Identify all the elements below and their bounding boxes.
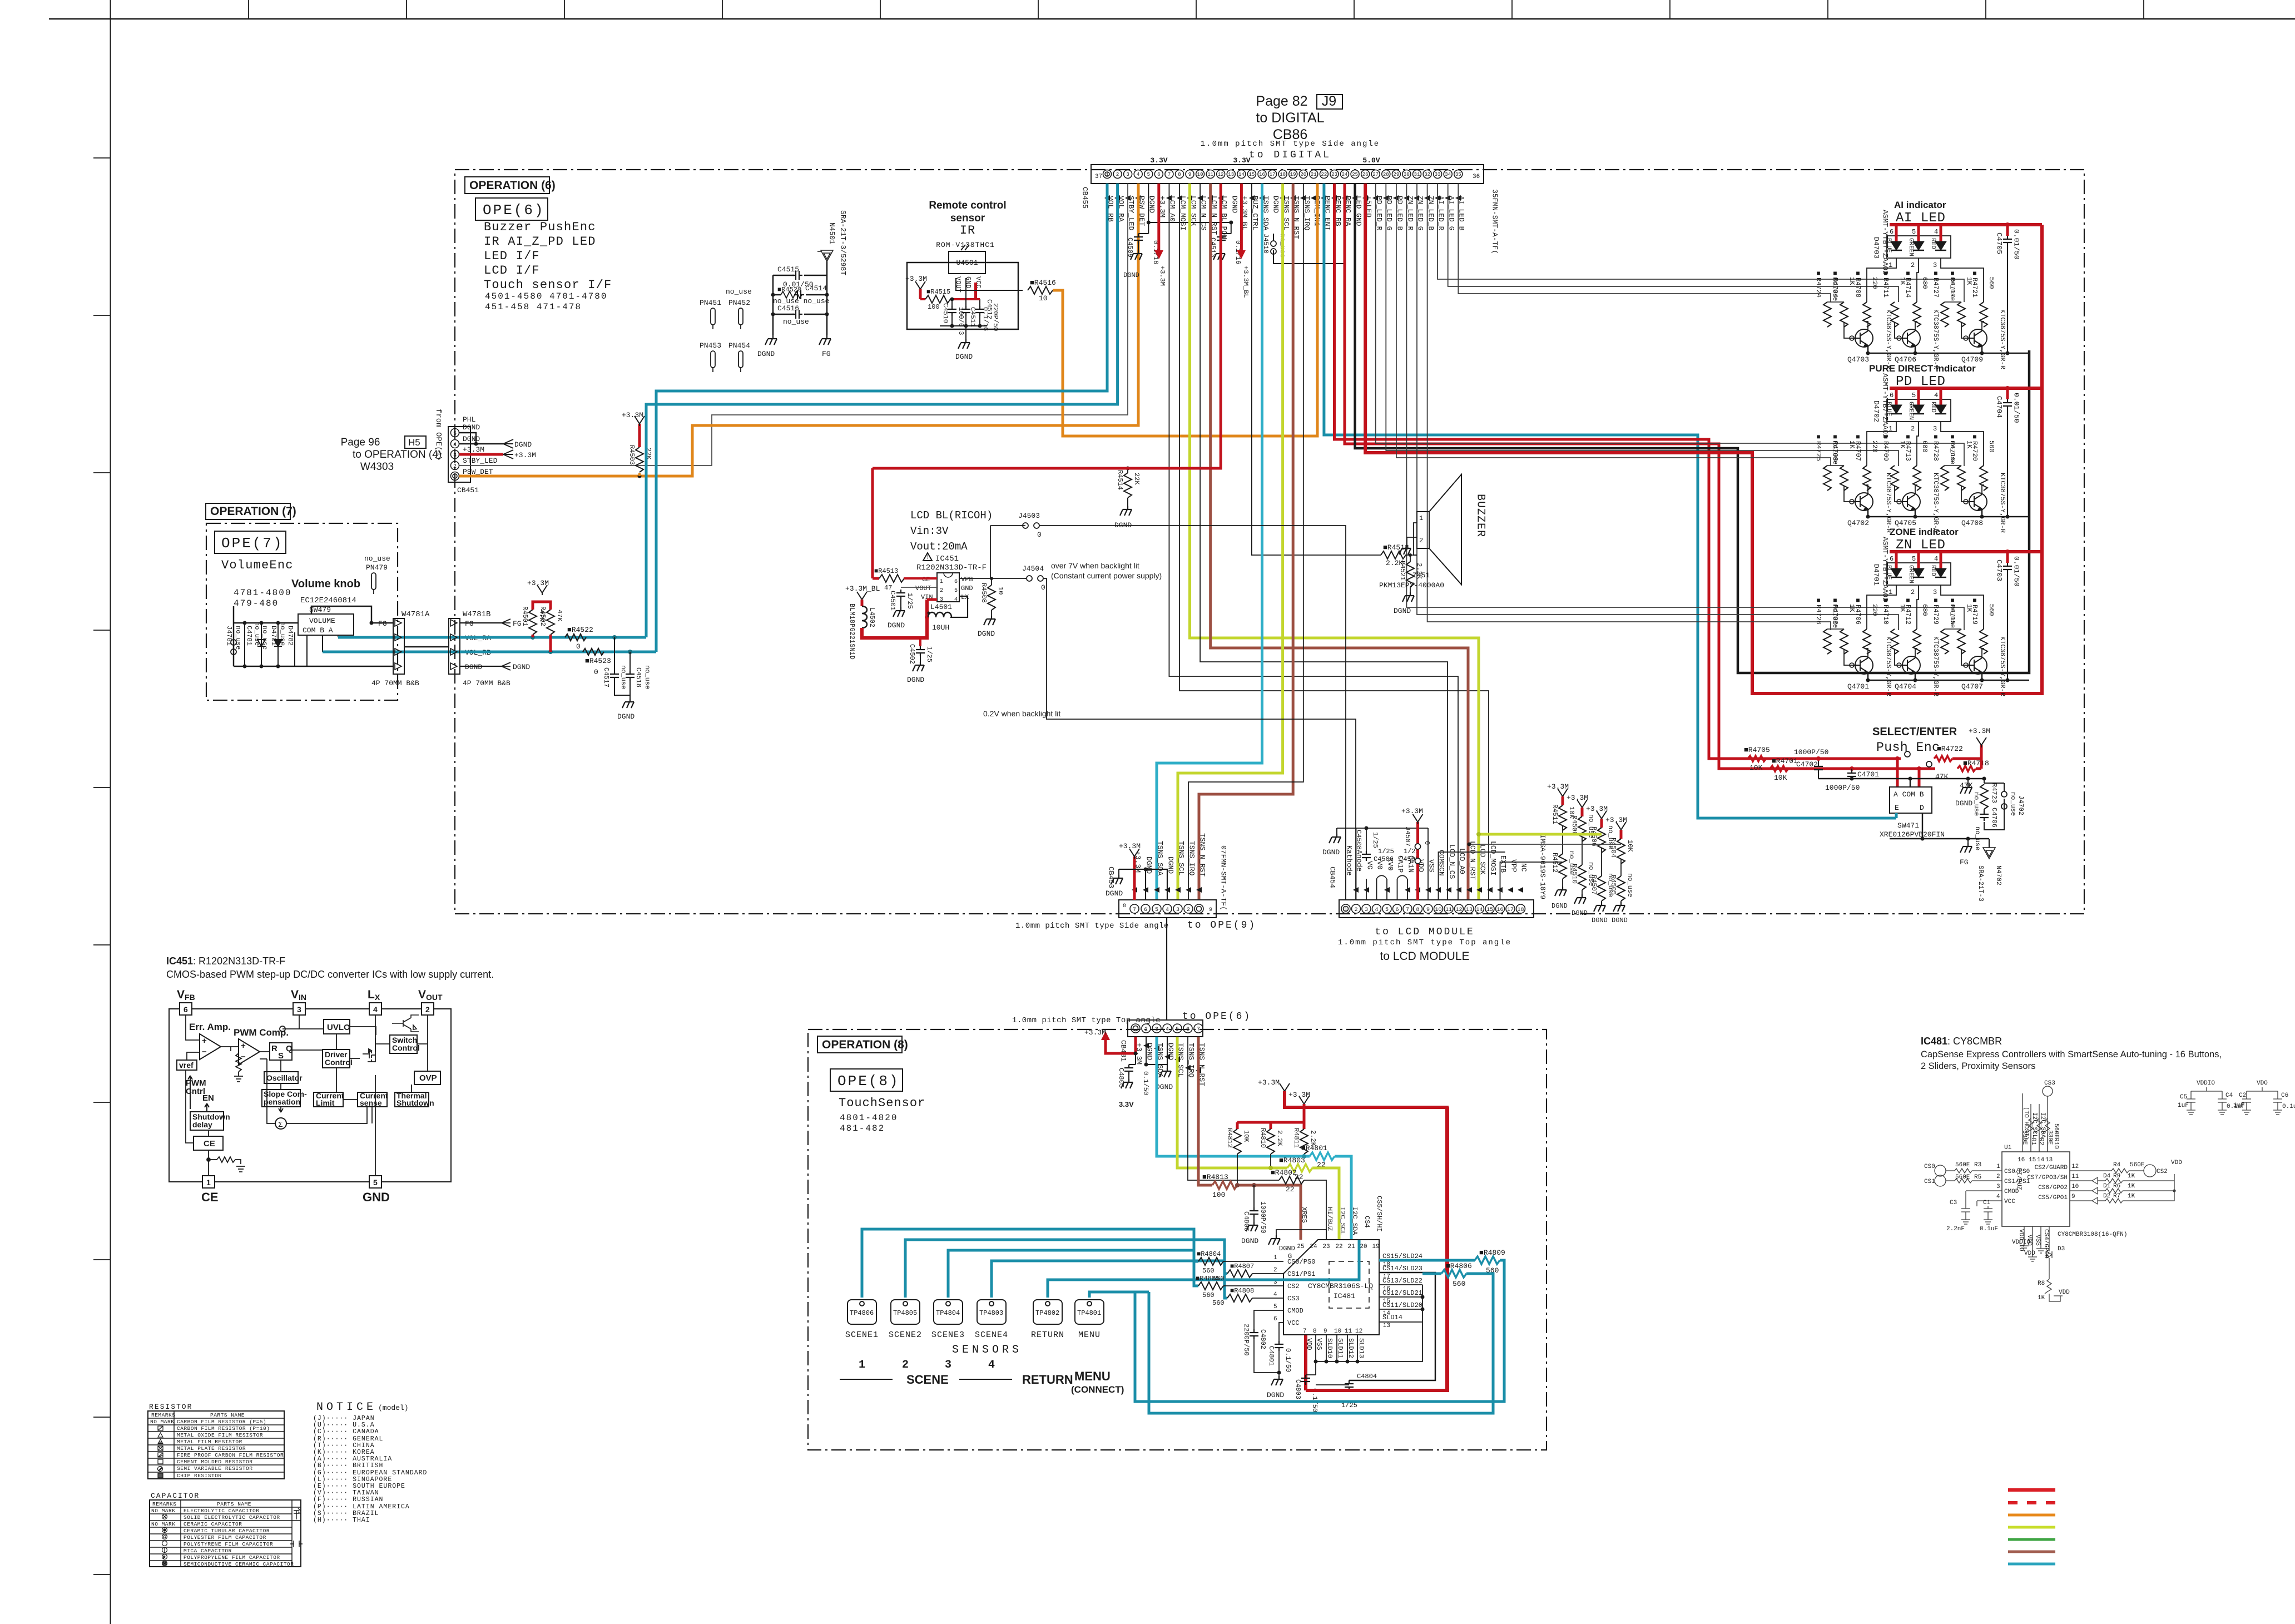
svg-text:R4507: R4507 bbox=[1590, 875, 1598, 895]
svg-text:D3: D3 bbox=[2058, 1246, 2065, 1252]
svg-text:KTC3875S-Y,GR-R: KTC3875S-Y,GR-R bbox=[1885, 636, 1892, 696]
antenna filter C4515 C4514 C4516 R4520 bbox=[773, 275, 827, 331]
svg-text:■R4719: ■R4719 bbox=[1971, 597, 1979, 625]
svg-text:L4502: L4502 bbox=[868, 607, 876, 627]
svg-text:CS5/GPO1: CS5/GPO1 bbox=[2038, 1195, 2068, 1201]
svg-text:no_use: no_use bbox=[783, 318, 809, 326]
svg-text:47K: 47K bbox=[1935, 773, 1949, 781]
OPE(6) ref numbers bbox=[485, 291, 607, 312]
svg-text:33: 33 bbox=[1435, 172, 1441, 177]
svg-text:17: 17 bbox=[1270, 172, 1276, 177]
svg-text:1: 1 bbox=[1996, 1163, 2000, 1170]
svg-text:■R4724: ■R4724 bbox=[1815, 270, 1822, 298]
svg-text:CS2: CS2 bbox=[2157, 1169, 2168, 1175]
svg-text:■R4516: ■R4516 bbox=[1030, 279, 1056, 287]
svg-text:VDDIO: VDDIO bbox=[2012, 1239, 2030, 1246]
svg-text:12: 12 bbox=[1455, 907, 1462, 913]
svg-text:Touch sensor I/F: Touch sensor I/F bbox=[484, 278, 612, 292]
svg-text:D4781: D4781 bbox=[270, 626, 277, 646]
svg-text:C4703: C4703 bbox=[1995, 560, 2004, 581]
svg-text:8: 8 bbox=[1313, 1328, 1317, 1335]
connector J9 CB455 body bbox=[1091, 165, 1484, 184]
wire +5LED rail PD LED bbox=[1890, 387, 2042, 390]
svg-text:2: 2 bbox=[1144, 1027, 1148, 1033]
svg-text:12: 12 bbox=[1355, 1328, 1362, 1335]
svg-text:NO MARK: NO MARK bbox=[151, 1521, 175, 1527]
svg-text:2 Sliders, Proximity Sensors: 2 Sliders, Proximity Sensors bbox=[1921, 1061, 2035, 1071]
svg-text:C4515: C4515 bbox=[777, 265, 799, 274]
resistor R4516 10 bbox=[1028, 286, 1053, 294]
jumper J4503 0 + kathode line bbox=[990, 525, 1025, 526]
svg-text:TP4803: TP4803 bbox=[979, 1309, 1003, 1317]
svg-text:POLYSTYRENE FILM CAPACITOR: POLYSTYRENE FILM CAPACITOR bbox=[184, 1541, 273, 1547]
svg-text:VDDIO: VDDIO bbox=[2197, 1080, 2215, 1087]
svg-text:DGND: DGND bbox=[513, 663, 530, 671]
svg-text:to OPERATION (4): to OPERATION (4) bbox=[353, 449, 442, 461]
OPE(6) function list bbox=[484, 220, 612, 292]
svg-text:6: 6 bbox=[1890, 392, 1894, 399]
svg-text:1/25: 1/25 bbox=[1371, 832, 1379, 848]
svg-text:■R4727: ■R4727 bbox=[1932, 270, 1940, 298]
svg-text:DGND: DGND bbox=[907, 676, 924, 684]
resistor R4518 2.2K bbox=[1381, 551, 1406, 559]
svg-text:no_use: no_use bbox=[726, 288, 752, 296]
capacitor C4702 1000P/50 bbox=[1818, 759, 1819, 763]
right pins bbox=[2070, 1171, 2111, 1201]
OPERATION(7) dash-dot border bbox=[206, 523, 398, 700]
wire TSNS_IRQ OPE8 bbox=[1188, 1037, 1279, 1180]
svg-text:SLD13: SLD13 bbox=[1357, 1338, 1365, 1358]
svg-text:■R4702: ■R4702 bbox=[1831, 597, 1839, 625]
svg-text:CEMENT MOLDED RESISTOR: CEMENT MOLDED RESISTOR bbox=[177, 1459, 252, 1465]
svg-text:DGND: DGND bbox=[1241, 1237, 1258, 1245]
CB454 DGND rail bbox=[1337, 828, 1428, 900]
svg-text:FG: FG bbox=[822, 350, 831, 358]
svg-text:560E: 560E bbox=[1955, 1174, 1970, 1181]
svg-text:1K: 1K bbox=[2128, 1193, 2135, 1200]
Oscillator box bbox=[264, 1072, 298, 1083]
svg-text:I2C_SDA: I2C_SDA bbox=[1351, 1207, 1359, 1235]
R4723 C4706 J4702 no_use cluster bbox=[1984, 779, 2004, 830]
svg-text:15: 15 bbox=[1383, 1298, 1390, 1305]
svg-text:■R4806: ■R4806 bbox=[1446, 1262, 1472, 1270]
encoder SW471 XRE0126PVB20FIN bbox=[1890, 787, 1932, 813]
svg-text:R1: R1 bbox=[2030, 1138, 2036, 1146]
svg-text:C6: C6 bbox=[2281, 1092, 2288, 1099]
svg-text:IC451: R1202N313D-TR-F: IC451: R1202N313D-TR-F bbox=[166, 955, 285, 967]
IC481 chip body bbox=[1283, 1240, 1379, 1335]
svg-text:6: 6 bbox=[1157, 172, 1160, 177]
svg-text:18: 18 bbox=[1280, 172, 1286, 177]
wire LCM_A0 bbox=[1169, 184, 1458, 900]
svg-text:POLYPROPYLENE FILM CAPACITOR: POLYPROPYLENE FILM CAPACITOR bbox=[184, 1554, 280, 1561]
svg-text:25: 25 bbox=[1297, 1244, 1304, 1250]
svg-text:RED: RED bbox=[1930, 238, 1936, 249]
svg-text:680: 680 bbox=[1921, 604, 1929, 616]
svg-text:R4510: R4510 bbox=[1570, 864, 1578, 884]
svg-text:NC: NC bbox=[1520, 863, 1528, 872]
wire VOL_RA right of W4781B bbox=[460, 636, 646, 639]
wire LED_GND black bbox=[1355, 184, 2029, 673]
svg-text:CS6/GPO2: CS6/GPO2 bbox=[2038, 1185, 2068, 1191]
resistor R4703 1K bbox=[1840, 466, 1848, 491]
svg-text:Q4705: Q4705 bbox=[1895, 519, 1916, 527]
svg-text:■R4802: ■R4802 bbox=[1271, 1169, 1297, 1177]
wire BUZ_CTRL bbox=[1252, 184, 1381, 555]
svg-text:22: 22 bbox=[1335, 1244, 1342, 1250]
svg-text:4801-4820: 4801-4820 bbox=[840, 1113, 898, 1123]
svg-text:19: 19 bbox=[1290, 172, 1296, 177]
capacitor C4502 1/25 bbox=[919, 638, 921, 646]
svg-text:35: 35 bbox=[1455, 172, 1461, 177]
wire DGND pin5 + C4509 bbox=[1148, 184, 1231, 234]
svg-text:R4810: R4810 bbox=[1259, 1128, 1267, 1148]
svg-text:−: − bbox=[202, 1047, 207, 1057]
svg-text:2: 2 bbox=[1419, 537, 1423, 544]
svg-text:560: 560 bbox=[1202, 1267, 1215, 1275]
touch pads bbox=[847, 1300, 876, 1324]
svg-text:TSNS_IRQ: TSNS_IRQ bbox=[1303, 196, 1311, 231]
resistor R4724 no_use bbox=[1823, 302, 1831, 327]
wire STBY_LED bbox=[459, 184, 1128, 466]
svg-text:11: 11 bbox=[2071, 1174, 2079, 1180]
svg-text:no_use: no_use bbox=[279, 622, 286, 646]
wire 0.2V line to LCD anode bbox=[1043, 578, 1356, 900]
svg-text:D4703: D4703 bbox=[1872, 237, 1881, 259]
svg-text:VSS: VSS bbox=[1315, 1338, 1323, 1350]
svg-text:MICA CAPACITOR: MICA CAPACITOR bbox=[184, 1548, 232, 1554]
connector CB481 to OPE(6) bbox=[1128, 1020, 1203, 1037]
wire PSW_DET orange bbox=[459, 184, 1138, 476]
svg-text:+3.3M: +3.3M bbox=[1158, 266, 1166, 286]
resistor R4802 22 bbox=[1279, 1176, 1304, 1184]
CB453 +3.3M red bbox=[1133, 856, 1136, 900]
svg-text:DGND: DGND bbox=[1612, 917, 1628, 924]
svg-text:2.2K: 2.2K bbox=[1309, 1130, 1317, 1147]
svg-text:■R4716: ■R4716 bbox=[1949, 433, 1956, 461]
svg-text:4: 4 bbox=[453, 442, 457, 448]
OPERATION(6) dash-dot border bbox=[455, 170, 2084, 914]
wire AI_LED_R bbox=[1438, 184, 1964, 302]
svg-text:TP4805: TP4805 bbox=[893, 1309, 917, 1317]
svg-text:0.1/50: 0.1/50 bbox=[1284, 1348, 1292, 1372]
resistor R4706 220 bbox=[1863, 629, 1871, 654]
svg-text:no_use: no_use bbox=[2009, 792, 2017, 816]
svg-text:0: 0 bbox=[1423, 841, 1431, 845]
svg-text:07FMN-SMT-A-TF(: 07FMN-SMT-A-TF( bbox=[1220, 845, 1228, 910]
svg-text:(CONNECT): (CONNECT) bbox=[1071, 1384, 1124, 1395]
resistor R4807 560 bbox=[1227, 1270, 1252, 1278]
svg-text:R10: R10 bbox=[2053, 1138, 2059, 1149]
svg-text:32: 32 bbox=[1424, 172, 1430, 177]
svg-text:C4509: C4509 bbox=[1126, 237, 1134, 258]
svg-text:C4704: C4704 bbox=[1995, 396, 2004, 418]
svg-text:1uF: 1uF bbox=[2233, 1102, 2244, 1109]
svg-text:R8: R8 bbox=[2038, 1280, 2045, 1287]
link line CB453 to CB481 bbox=[1166, 918, 1167, 1020]
svg-text:1/25: 1/25 bbox=[906, 593, 914, 609]
svg-text:1K: 1K bbox=[2128, 1173, 2135, 1180]
wire LED cathodes to drivers bbox=[1867, 585, 1896, 629]
svg-text:1: 1 bbox=[1273, 1255, 1277, 1261]
svg-text:J9: J9 bbox=[1322, 93, 1336, 109]
svg-text:I2C_SCL: I2C_SCL bbox=[2031, 1112, 2038, 1138]
svg-text:2: 2 bbox=[1911, 588, 1915, 596]
svg-text:Q4702: Q4702 bbox=[1847, 519, 1869, 527]
svg-text:3: 3 bbox=[1996, 1184, 2000, 1190]
wire PD_LED_R bbox=[1376, 184, 1964, 466]
svg-text:CARBON FILM RESISTOR (P=10): CARBON FILM RESISTOR (P=10) bbox=[177, 1425, 270, 1432]
svg-text:1.0mm pitch SMT type Side angl: 1.0mm pitch SMT type Side angle bbox=[1015, 922, 1169, 930]
svg-text:TP4804: TP4804 bbox=[936, 1309, 960, 1317]
svg-text:CS1/PS1: CS1/PS1 bbox=[1287, 1270, 1315, 1278]
svg-text:N4702: N4702 bbox=[1995, 865, 2002, 885]
svg-text:PARTS NAME: PARTS NAME bbox=[210, 1412, 245, 1418]
svg-text:D2: D2 bbox=[2103, 1193, 2110, 1200]
svg-text:8: 8 bbox=[1178, 172, 1181, 177]
svg-text:VOLUME: VOLUME bbox=[309, 617, 335, 625]
svg-text:LCD_N_RST: LCD_N_RST bbox=[1469, 841, 1477, 880]
svg-text:Q: Q bbox=[286, 1044, 293, 1053]
IC481 app labels bbox=[1924, 1080, 2295, 1301]
svg-text:+3.3M: +3.3M bbox=[1119, 842, 1141, 850]
ruler ticks left bbox=[93, 158, 110, 1575]
svg-text:CS1/PS1: CS1/PS1 bbox=[2004, 1179, 2030, 1185]
svg-text:CERAMIC TUBULAR CAPACITOR: CERAMIC TUBULAR CAPACITOR bbox=[184, 1528, 270, 1534]
svg-text:9: 9 bbox=[1188, 172, 1191, 177]
svg-text:1uF: 1uF bbox=[2178, 1102, 2189, 1109]
svg-text:1.0mm pitch SMT type Top angle: 1.0mm pitch SMT type Top angle bbox=[1012, 1016, 1161, 1025]
svg-text:OPE(6): OPE(6) bbox=[483, 202, 545, 219]
svg-text:1/25: 1/25 bbox=[925, 646, 933, 662]
svg-text:10UH: 10UH bbox=[932, 623, 949, 632]
svg-text:■R4717: ■R4717 bbox=[1949, 270, 1956, 298]
svg-text:C4501: C4501 bbox=[889, 591, 896, 611]
svg-text:VPP: VPP bbox=[1510, 859, 1518, 873]
svg-text:Shutdown: Shutdown bbox=[396, 1098, 434, 1107]
capacitor C4509 0.1/16 bbox=[1138, 233, 1148, 234]
svg-text:OPE(8): OPE(8) bbox=[837, 1073, 900, 1090]
svg-text:J4503: J4503 bbox=[1018, 512, 1040, 520]
svg-text:■R4715: ■R4715 bbox=[1949, 597, 1956, 625]
svg-text:3: 3 bbox=[1933, 261, 1937, 269]
resistor R4720 560 bbox=[1980, 466, 1987, 491]
svg-text:(H)····· THAI: (H)····· THAI bbox=[313, 1517, 370, 1524]
connector CB453 to OPE(9) bbox=[1119, 900, 1216, 918]
svg-text:DGND: DGND bbox=[1572, 909, 1588, 917]
svg-text:220P/50: 220P/50 bbox=[992, 303, 999, 331]
svg-text:CS5/SH/HI: CS5/SH/HI bbox=[1375, 1196, 1383, 1232]
wire PD_LED_B bbox=[1396, 184, 1831, 466]
svg-text:KTC3875S-Y,GR-R: KTC3875S-Y,GR-R bbox=[1932, 309, 1940, 369]
svg-text:HI/BUZ: HI/BUZ bbox=[1326, 1207, 1334, 1231]
svg-text:3: 3 bbox=[1933, 425, 1937, 433]
svg-text:R4508: R4508 bbox=[980, 583, 988, 603]
svg-text:2200P/50: 2200P/50 bbox=[1242, 1324, 1250, 1356]
wire VOL_RB teal from encoder bbox=[323, 651, 656, 653]
svg-text:R4509: R4509 bbox=[1570, 815, 1578, 835]
svg-text:■R4515: ■R4515 bbox=[926, 288, 950, 296]
svg-text:CS0/PS0: CS0/PS0 bbox=[1287, 1258, 1315, 1266]
svg-text:+3.3M_BL: +3.3M_BL bbox=[1242, 266, 1250, 298]
resistor R4804 560 bbox=[1198, 1257, 1223, 1265]
svg-text:4P 70MM B&B: 4P 70MM B&B bbox=[371, 679, 419, 687]
signal direction arrows bbox=[1104, 195, 1461, 201]
svg-text:DGND: DGND bbox=[617, 712, 635, 721]
connector J9 CB455 header text bbox=[1201, 93, 1380, 161]
svg-text:17: 17 bbox=[1507, 907, 1514, 913]
svg-text:13: 13 bbox=[2045, 1157, 2053, 1163]
svg-text:FG: FG bbox=[378, 620, 387, 628]
wire PENC_RA red bbox=[1345, 184, 1935, 769]
svg-text:no_use: no_use bbox=[643, 665, 651, 689]
svg-text:R4: R4 bbox=[2113, 1162, 2121, 1169]
+3.3M VDD red bbox=[1416, 822, 1419, 900]
svg-text:9: 9 bbox=[1324, 1328, 1327, 1335]
wire TSNS_SDA cyan bbox=[1157, 184, 1262, 900]
OPE(7) label box bbox=[215, 531, 286, 553]
svg-text:+3.3M: +3.3M bbox=[622, 411, 643, 419]
svg-text:■R4728: ■R4728 bbox=[1932, 433, 1940, 461]
svg-text:■R4711: ■R4711 bbox=[1882, 270, 1890, 298]
svg-text:3: 3 bbox=[940, 597, 943, 603]
svg-text:5: 5 bbox=[1147, 172, 1150, 177]
resistor R4710 1K bbox=[1891, 629, 1899, 654]
svg-text:19: 19 bbox=[1372, 1244, 1379, 1250]
svg-text:FG: FG bbox=[1960, 858, 1969, 867]
svg-text:560: 560 bbox=[1453, 1280, 1465, 1288]
VSS SLD rail bbox=[1316, 1285, 1422, 1361]
svg-text:D4: D4 bbox=[2103, 1173, 2111, 1180]
svg-text:XRES: XRES bbox=[1300, 1207, 1308, 1223]
svg-text:FG: FG bbox=[465, 620, 474, 628]
svg-text:4781-4800: 4781-4800 bbox=[234, 588, 291, 598]
svg-text:DGND: DGND bbox=[978, 630, 995, 638]
svg-text:N4501: N4501 bbox=[828, 222, 836, 244]
svg-text:2: 2 bbox=[940, 588, 943, 594]
svg-text:2: 2 bbox=[1996, 1174, 2000, 1180]
wire ZN_LED_G bbox=[1417, 184, 1899, 630]
VCC cap C4801 0.1/50 bbox=[1279, 1323, 1283, 1341]
VOUT wire to R4516 bbox=[956, 278, 1023, 290]
svg-text:6: 6 bbox=[1890, 555, 1894, 563]
wire TSNS_SCL ylw OPE8 bbox=[1177, 1037, 1287, 1168]
svg-text:0.1uF: 0.1uF bbox=[2282, 1103, 2295, 1110]
svg-text:479-480: 479-480 bbox=[234, 598, 279, 608]
svg-text:C3: C3 bbox=[1950, 1200, 1957, 1206]
CMOD cap C4802 2200P/50 bbox=[1254, 1310, 1283, 1329]
svg-text:VG: VG bbox=[1366, 861, 1374, 870]
chip right pins bbox=[1382, 1252, 1422, 1321]
svg-text:Q4709: Q4709 bbox=[1961, 355, 1983, 364]
jumper J4510 no_use bbox=[1273, 234, 1274, 258]
svg-text:PWM Comp.: PWM Comp. bbox=[234, 1027, 289, 1038]
svg-text:R4503: R4503 bbox=[628, 445, 636, 465]
svg-text:30: 30 bbox=[1404, 172, 1410, 177]
LED D4703 ASMT-YTB7-ZAA02 bbox=[1887, 236, 1951, 258]
wire +5LED red thick bbox=[1365, 184, 2042, 694]
svg-text:KTC3875S-Y,GR-R: KTC3875S-Y,GR-R bbox=[1932, 473, 1940, 533]
transistor Q4706 KTC3875S-Y,GR-R bbox=[1902, 329, 1920, 347]
svg-text:CB455: CB455 bbox=[1081, 187, 1089, 209]
wire RETURN teal to CS4 bbox=[1048, 1240, 1359, 1298]
svg-text:LCD BL(RICOH): LCD BL(RICOH) bbox=[910, 509, 993, 522]
svg-text:■R4713: ■R4713 bbox=[1904, 433, 1912, 461]
svg-text:C1: C1 bbox=[1983, 1200, 1991, 1206]
svg-text:RETURN: RETURN bbox=[1022, 1373, 1073, 1387]
svg-text:22: 22 bbox=[1286, 1185, 1295, 1194]
svg-text:DGND: DGND bbox=[1156, 1083, 1173, 1091]
capacitor C4704 0.01/50 bbox=[2006, 388, 2009, 399]
svg-text:100: 100 bbox=[928, 303, 940, 311]
svg-text:Control: Control bbox=[325, 1058, 353, 1067]
wire encoder D to FG rail bbox=[1890, 813, 1989, 839]
svg-text:VDD: VDD bbox=[2059, 1289, 2070, 1296]
svg-text:9: 9 bbox=[1426, 907, 1430, 913]
svg-text:Control: Control bbox=[392, 1043, 420, 1052]
svg-text:■R4522: ■R4522 bbox=[567, 626, 593, 634]
svg-text:DGND: DGND bbox=[465, 663, 482, 671]
Thermal Shutdown box bbox=[395, 1092, 429, 1107]
svg-text:■R4720: ■R4720 bbox=[1971, 433, 1979, 461]
wire LCM_N_CS bbox=[1200, 184, 1448, 900]
svg-text:5: 5 bbox=[1273, 1304, 1277, 1310]
CB481 +3.3M red bbox=[1106, 1037, 1136, 1053]
wire LCM_N_RST maroon bbox=[1211, 184, 1468, 900]
svg-text:28: 28 bbox=[1383, 172, 1389, 177]
pin LX 4 bbox=[369, 1003, 381, 1015]
svg-text:3.3V: 3.3V bbox=[1233, 156, 1250, 165]
svg-text:17: 17 bbox=[1383, 1274, 1390, 1280]
svg-text:5: 5 bbox=[1385, 907, 1389, 913]
svg-text:LCD_N_CS: LCD_N_CS bbox=[1448, 844, 1456, 879]
svg-text:OVP: OVP bbox=[419, 1073, 437, 1083]
wire +5LED rail ZN LED bbox=[1890, 550, 2042, 553]
CB451 DGND wires bbox=[459, 433, 503, 444]
svg-text:■R4708: ■R4708 bbox=[1854, 270, 1862, 298]
resistor R4813 100 bbox=[1212, 1181, 1237, 1189]
svg-text:TSNS_N_RST: TSNS_N_RST bbox=[1198, 833, 1207, 877]
svg-text:D1: D1 bbox=[2103, 1183, 2111, 1190]
svg-text:■R4513: ■R4513 bbox=[874, 567, 898, 575]
svg-text:■R4726: ■R4726 bbox=[1815, 597, 1822, 625]
wire VOL_RA teal bbox=[646, 184, 1118, 637]
top pins bbox=[2023, 1093, 2048, 1152]
wire SCENE3 teal bbox=[948, 1250, 1198, 1298]
Remote control sensor block bbox=[929, 200, 1006, 249]
vref box bbox=[177, 1060, 197, 1070]
wire +3.3M to pull-ups bbox=[1952, 745, 1981, 769]
svg-text:SCENE4: SCENE4 bbox=[975, 1330, 1008, 1340]
svg-text:560: 560 bbox=[1987, 277, 1995, 289]
Driver Control box bbox=[323, 1049, 350, 1068]
svg-text:R7: R7 bbox=[2113, 1193, 2120, 1200]
svg-text:2.2K: 2.2K bbox=[1276, 1130, 1283, 1147]
svg-text:10: 10 bbox=[1039, 294, 1048, 303]
wire +3.3M pin6 red arrow bbox=[1157, 184, 1160, 250]
svg-text:CMOD: CMOD bbox=[1287, 1307, 1303, 1315]
svg-text:REMARKS: REMARKS bbox=[152, 1501, 176, 1507]
IC481 application circuit bbox=[1935, 1086, 2282, 1301]
transistor Q4705 KTC3875S-Y,GR-R bbox=[1902, 493, 1920, 511]
svg-text:DGND: DGND bbox=[1267, 1391, 1284, 1399]
svg-text:SOLID ELECTROLYTIC CAPACITOR: SOLID ELECTROLYTIC CAPACITOR bbox=[184, 1514, 280, 1521]
resistor R4801 22 bbox=[1310, 1152, 1335, 1160]
capacitor C4701 1000P/50 bbox=[1851, 769, 1852, 770]
svg-text:SRA-21T-3/5298T: SRA-21T-3/5298T bbox=[839, 210, 847, 275]
svg-text:C4516: C4516 bbox=[777, 304, 799, 313]
resistor R4716 1K bbox=[1957, 466, 1965, 491]
